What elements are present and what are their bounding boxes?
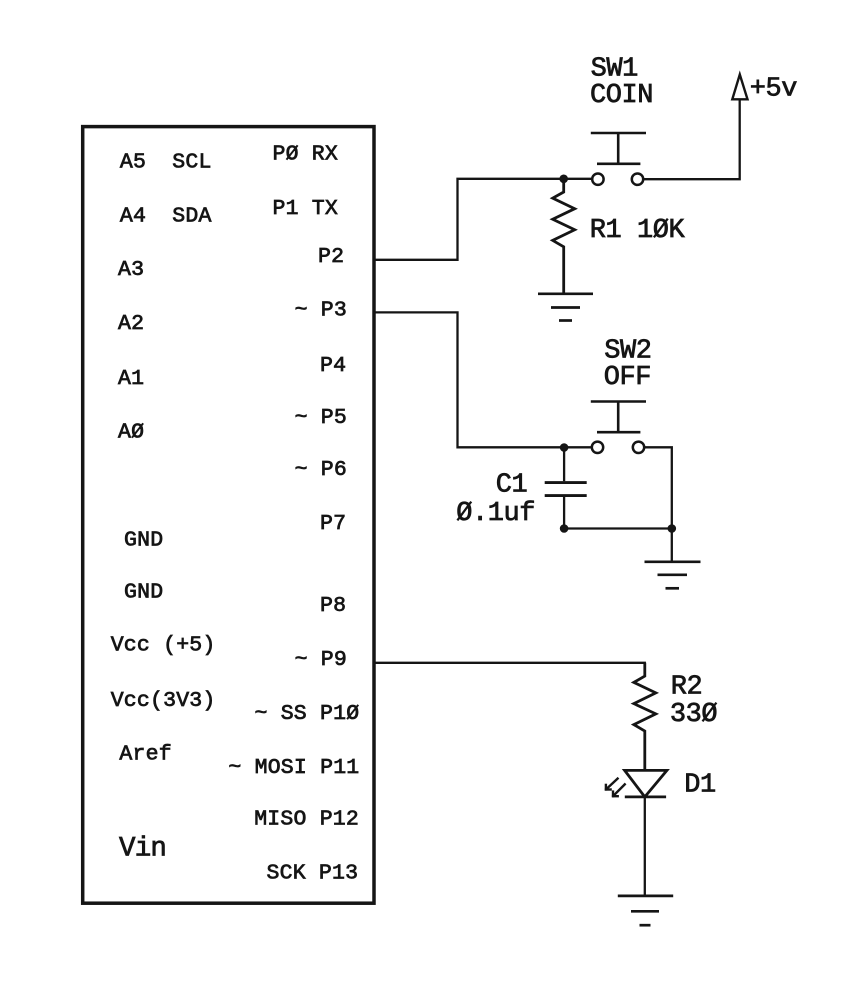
svg-text:~ SS P1Ø: ~ SS P1Ø: [255, 702, 360, 726]
svg-text:A3: A3: [118, 258, 144, 282]
ground (R1): [538, 294, 593, 321]
svg-text:~ P9: ~ P9: [295, 648, 347, 672]
wire P3 to SW2 node: [374, 312, 591, 447]
svg-text:R2: R2: [671, 673, 703, 703]
ground (SW2): [645, 562, 701, 589]
SW1 contact pins: [592, 174, 603, 185]
resistor R1: [553, 179, 575, 294]
svg-text:A1: A1: [118, 367, 144, 391]
svg-text:+5v: +5v: [750, 74, 798, 104]
svg-text:P7: P7: [320, 512, 346, 536]
wire P9 to R2: [374, 662, 645, 664]
resistor R2: [634, 663, 656, 771]
svg-text:Aref: Aref: [119, 742, 171, 766]
svg-text:R1 1ØK: R1 1ØK: [590, 216, 686, 246]
LED D1: [625, 770, 667, 797]
svg-text:A5 SCL: A5 SCL: [120, 150, 212, 174]
svg-text:~ MOSI P11: ~ MOSI P11: [228, 756, 359, 780]
switch SW1 (pushbutton): [591, 133, 646, 164]
svg-text:Vcc (+5): Vcc (+5): [111, 634, 216, 658]
node junction P3/C1/SW2: [560, 443, 569, 452]
svg-text:AØ: AØ: [118, 421, 144, 445]
wire D1 cathode to ground: [644, 797, 646, 896]
svg-text:A4 SDA: A4 SDA: [120, 204, 212, 228]
svg-text:SW1: SW1: [591, 55, 638, 85]
ground (D1): [618, 896, 673, 925]
wire C1 bottom to SW2 ground leg: [564, 527, 672, 529]
svg-text:SCK P13: SCK P13: [267, 862, 359, 886]
wire P2 to SW1 node: [374, 179, 591, 260]
svg-text:PØ RX: PØ RX: [273, 143, 339, 167]
wire SW1 right contact to +5v: [645, 99, 740, 179]
svg-text:A2: A2: [118, 312, 144, 336]
svg-text:~ P3: ~ P3: [295, 299, 347, 323]
wire SW2 right contact to ground: [645, 447, 672, 561]
D1 light arrow 1: [605, 778, 619, 791]
svg-text:~ P6: ~ P6: [295, 458, 347, 482]
svg-text:GND: GND: [124, 529, 163, 553]
svg-text:33Ø: 33Ø: [670, 700, 718, 730]
capacitor C1: [545, 448, 587, 529]
svg-text:MISO P12: MISO P12: [254, 808, 359, 832]
svg-text:P2: P2: [318, 245, 344, 269]
svg-text:GND: GND: [124, 581, 163, 605]
node junction P2/R1/SW1: [559, 175, 568, 184]
node SW2 ground junction: [668, 524, 677, 533]
svg-text:~ P5: ~ P5: [295, 406, 347, 430]
svg-text:C1: C1: [496, 471, 528, 501]
svg-text:OFF: OFF: [604, 363, 651, 393]
+5v supply arrow: [732, 75, 747, 100]
svg-text:Vcc(3V3): Vcc(3V3): [111, 689, 216, 713]
SW2 contact pins: [592, 442, 603, 453]
svg-text:COIN: COIN: [590, 81, 653, 111]
svg-text:Ø.1uf: Ø.1uf: [456, 499, 535, 529]
node C1 bottom junction: [560, 524, 569, 533]
svg-text:D1: D1: [684, 771, 716, 801]
svg-text:P4: P4: [320, 354, 346, 378]
svg-text:Vin: Vin: [119, 834, 166, 865]
IC box U1: [83, 127, 374, 904]
svg-text:P1 TX: P1 TX: [273, 197, 339, 221]
svg-text:P8: P8: [320, 594, 346, 618]
D1 light arrow 2: [612, 784, 626, 798]
switch SW2 (pushbutton): [591, 402, 646, 433]
